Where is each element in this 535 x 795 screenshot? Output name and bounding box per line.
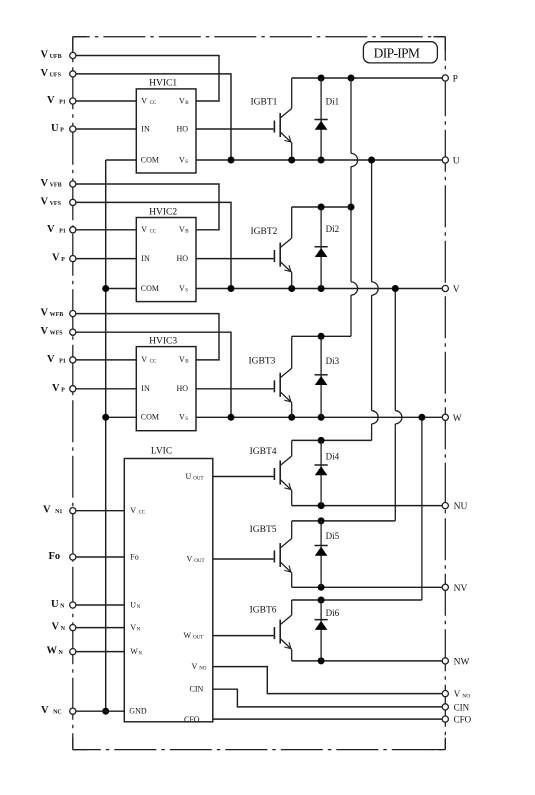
input pin label VP1 xyxy=(47,354,66,365)
junction V rail / IGBT emitter xyxy=(288,285,295,292)
wire V_N1 pin to LVIC Vcc xyxy=(73,510,125,512)
IGBT2 label xyxy=(251,227,278,237)
svg-text:IN: IN xyxy=(141,384,150,393)
svg-text:NW: NW xyxy=(454,657,470,667)
transistor IGBT3 symbol xyxy=(274,336,291,417)
terminal pin NV (open circle) xyxy=(442,584,448,590)
wire V_FB pin to HVIC3 VB (bootstrap supply) xyxy=(73,314,219,360)
IGBT5 label xyxy=(250,525,277,535)
wire NU rail (IGBT4 emitter to NU pin) xyxy=(292,505,446,507)
input pin label Fo xyxy=(49,551,61,562)
terminal pin UP (open circle) xyxy=(70,126,76,132)
transistor IGBT4 symbol xyxy=(274,440,291,505)
output pin label W xyxy=(453,414,462,424)
Di4 label xyxy=(326,451,340,461)
terminal pin W (open circle) xyxy=(442,414,448,420)
terminal pin CFO (open circle) xyxy=(442,716,448,722)
input pin label VP xyxy=(52,383,65,394)
LVIC title label xyxy=(151,447,172,457)
junction P rail / Di1 cathode xyxy=(318,75,325,82)
wire LVIC Vout to IGBT5 gate xyxy=(213,558,274,560)
Di1 label xyxy=(326,96,340,106)
HVIC1 pin label HO xyxy=(177,124,189,133)
LVIC pin label Vout xyxy=(187,554,205,564)
input pin label VP1 xyxy=(47,95,66,106)
svg-text:Di6: Di6 xyxy=(326,608,340,618)
svg-text:IGBT6: IGBT6 xyxy=(250,606,277,616)
LVIC pin label Fo xyxy=(130,552,138,561)
module boundary bottom border (dash-dot) xyxy=(73,749,446,751)
junction U rail / IGBT4 collector feed xyxy=(368,157,375,164)
transistor IGBT6 symbol xyxy=(274,600,291,661)
input pin label VUFB xyxy=(41,50,62,61)
HVIC3 pin label Vcc xyxy=(141,355,157,365)
input pin label VVFB xyxy=(41,178,62,189)
svg-text:Di1: Di1 xyxy=(326,96,340,106)
wire input pin to HVIC1 IN xyxy=(73,128,137,130)
svg-text:P: P xyxy=(453,75,458,85)
output pin label CFO xyxy=(454,715,472,725)
svg-text:Di2: Di2 xyxy=(326,224,340,234)
IC block HVIC2 box xyxy=(136,218,196,302)
svg-text:HVIC1: HVIC1 xyxy=(149,79,177,89)
terminal pin VP (open circle) xyxy=(70,386,76,392)
junction W rail / IGBT6 collector feed xyxy=(418,414,425,421)
HVIC2 title label xyxy=(149,207,177,217)
LVIC pin label WN xyxy=(130,647,142,657)
diode Di3 (freewheel) xyxy=(315,336,328,417)
junction V rail / IGBT5 collector feed xyxy=(392,285,399,292)
diode Di1 (freewheel) xyxy=(315,78,328,160)
IGBT6 label xyxy=(250,606,277,616)
junction U rail / diode anode xyxy=(318,157,325,164)
junction IGBT6 collector / Di6 cathode xyxy=(318,597,325,604)
LVIC pin label Vno xyxy=(192,662,207,672)
svg-text:LVIC: LVIC xyxy=(151,447,172,457)
junction V rail / V_FS wire xyxy=(228,285,235,292)
wire HVIC1 HO to IGBT1 gate xyxy=(196,128,274,130)
Di2 label xyxy=(326,224,340,234)
svg-text:IGBT4: IGBT4 xyxy=(250,447,277,457)
terminal pin VNO (open circle) xyxy=(442,691,448,697)
wire Fo pin to LVIC Fo xyxy=(73,556,125,558)
input pin label UP xyxy=(51,123,64,134)
wire HVIC1 COM to common bus xyxy=(106,159,137,161)
junction high-side bus / IGBT2 collector xyxy=(348,204,355,211)
input pin label VVFS xyxy=(41,196,62,207)
wire HVIC2 HO to IGBT2 gate xyxy=(196,258,274,260)
svg-text:IGBT1: IGBT1 xyxy=(251,98,278,108)
wire IGBT6 collector to W feed xyxy=(292,599,422,601)
wire V_P1 pin to HVIC1 Vcc xyxy=(73,100,137,102)
HVIC2 pin label HO xyxy=(177,254,189,263)
terminal pin NW (open circle) xyxy=(442,658,448,664)
wire HVIC3 COM to common bus xyxy=(106,416,137,418)
HVIC1 title label xyxy=(149,79,177,89)
junction NV rail / Di5 anode xyxy=(318,584,325,591)
Di5 label xyxy=(326,531,340,541)
svg-text:Di4: Di4 xyxy=(326,451,340,461)
input pin label VNC xyxy=(41,705,62,716)
wire input pin to HVIC2 IN xyxy=(73,258,137,260)
wire LVIC Vno to V_NO pin xyxy=(213,667,445,694)
wire IGBT4 collector to U feed xyxy=(292,439,372,441)
wire V_N pin to LVIC VN xyxy=(73,627,125,629)
HVIC1 pin label VB xyxy=(179,96,189,106)
IGBT4 label xyxy=(250,447,277,457)
input pin label WN xyxy=(47,646,64,657)
wire U phase rail xyxy=(196,159,445,161)
transistor IGBT2 symbol xyxy=(274,207,291,289)
terminal pin VUFS (open circle) xyxy=(70,71,76,77)
wire V_FS pin down to phase rail xyxy=(73,74,231,160)
wire V phase rail xyxy=(196,288,445,290)
IC block HVIC1 box xyxy=(136,89,196,173)
wire V_NC pin to LVIC GND xyxy=(73,710,125,712)
terminal pin VN1 (open circle) xyxy=(70,508,76,514)
terminal pin VVFB (open circle) xyxy=(70,181,76,187)
svg-text:Fo: Fo xyxy=(49,551,61,562)
input pin label VWFB xyxy=(41,308,64,319)
svg-text:HVIC3: HVIC3 xyxy=(149,336,177,346)
transistor IGBT5 symbol xyxy=(274,521,291,587)
LVIC pin label CIN xyxy=(190,685,204,694)
Di6 label xyxy=(326,608,340,618)
wire IGBT2 collector to high-side bus xyxy=(292,206,351,208)
wire V_FS pin down to phase rail xyxy=(73,332,231,417)
Di3 label xyxy=(326,356,340,366)
junction IGBT2 collector / Di2 cathode xyxy=(318,204,325,211)
terminal pin VVFS (open circle) xyxy=(70,199,76,205)
terminal pin VNC (open circle) xyxy=(70,708,76,714)
diode Di4 (freewheel) xyxy=(315,440,328,505)
svg-text:CIN: CIN xyxy=(190,685,204,694)
svg-text:Di3: Di3 xyxy=(326,356,340,366)
LVIC pin label VN xyxy=(130,623,140,633)
LVIC pin label UN xyxy=(130,600,140,610)
wire LVIC Wout to IGBT6 gate xyxy=(213,635,274,637)
svg-text:IGBT2: IGBT2 xyxy=(251,227,278,237)
junction COM bus at HVIC2 COM xyxy=(102,285,109,292)
wire V_FB pin to HVIC1 VB (bootstrap supply) xyxy=(73,56,219,102)
terminal pin VUFB (open circle) xyxy=(70,52,76,58)
HVIC2 pin label VS xyxy=(179,284,188,294)
diode Di2 (freewheel) xyxy=(315,207,328,289)
HVIC1 pin label IN xyxy=(141,124,150,133)
HVIC1 pin label COM xyxy=(141,155,159,164)
module boundary left border (dash-dot) xyxy=(72,37,74,750)
svg-text:CFO: CFO xyxy=(184,715,200,724)
wire W rail to IGBT6 collector (crosses NU and NV rails) xyxy=(421,417,423,600)
HVIC1 pin label Vcc xyxy=(141,96,157,106)
wire U_N pin to LVIC UN xyxy=(73,604,125,606)
HVIC3 pin label COM xyxy=(141,413,159,422)
svg-text:DIP-IPM: DIP-IPM xyxy=(374,46,420,61)
LVIC block box xyxy=(124,459,213,722)
terminal pin V (open circle) xyxy=(442,285,448,291)
diode Di6 (freewheel) xyxy=(315,600,328,661)
junction W rail / IGBT emitter xyxy=(288,414,295,421)
wire V rail to IGBT5 collector (hops over W rail, crosses NU rail) xyxy=(395,289,402,521)
wire V_P1 pin to HVIC3 Vcc xyxy=(73,359,137,361)
wire high-side bus from P rail to IGBT3 collector (hops over U and V rails) xyxy=(351,78,358,336)
terminal pin VWFB (open circle) xyxy=(70,311,76,317)
svg-text:HO: HO xyxy=(177,384,189,393)
svg-text:V: V xyxy=(453,285,460,295)
IGBT3 label xyxy=(249,356,276,366)
wire V_P1 pin to HVIC2 Vcc xyxy=(73,229,137,231)
junction IGBT3 collector / Di3 cathode xyxy=(318,333,325,340)
output pin label NW xyxy=(454,657,470,667)
terminal pin UN (open circle) xyxy=(70,602,76,608)
svg-text:COM: COM xyxy=(141,155,159,164)
junction U rail / IGBT emitter xyxy=(288,157,295,164)
wire COM vertical bus (HVIC COM / LVIC GND common) xyxy=(105,160,107,711)
terminal pin VP1 (open circle) xyxy=(70,227,76,233)
input pin label VP xyxy=(52,253,65,264)
LVIC pin label Uout xyxy=(186,472,204,482)
svg-text:CIN: CIN xyxy=(454,702,470,712)
output pin label NU xyxy=(454,502,468,512)
junction W rail / diode anode xyxy=(318,414,325,421)
junction IGBT4 collector / Di4 cathode xyxy=(318,437,325,444)
terminal pin P (open circle) xyxy=(442,75,448,81)
terminal pin VN (open circle) xyxy=(70,625,76,631)
output pin label U xyxy=(453,157,460,167)
svg-text:HO: HO xyxy=(177,124,189,133)
LVIC pin label CFO xyxy=(184,715,200,724)
output pin label CIN xyxy=(454,702,470,712)
junction U rail / V_FS wire xyxy=(228,157,235,164)
junction NW rail / Di6 anode xyxy=(318,657,325,664)
svg-text:Fo: Fo xyxy=(130,552,138,561)
module boundary right border (dash-dot) xyxy=(444,37,446,750)
svg-text:IGBT5: IGBT5 xyxy=(250,525,277,535)
HVIC3 pin label IN xyxy=(141,384,150,393)
wire HVIC2 COM to common bus xyxy=(106,288,137,290)
IC block HVIC3 box xyxy=(136,347,196,431)
DIP-IPM title box xyxy=(363,42,437,63)
input pin label VWFS xyxy=(41,326,64,337)
LVIC pin label GND xyxy=(129,707,147,716)
HVIC1 pin label VS xyxy=(179,155,188,165)
HVIC2 pin label VB xyxy=(179,225,189,235)
wire V_FS pin down to phase rail xyxy=(73,202,231,288)
svg-text:IGBT3: IGBT3 xyxy=(249,356,276,366)
junction IGBT5 collector / Di5 cathode xyxy=(318,517,325,524)
HVIC3 pin label VS xyxy=(179,413,188,423)
input pin label VN1 xyxy=(43,505,62,516)
LVIC pin label Vcc xyxy=(130,506,146,516)
wire IGBT5 collector to V feed xyxy=(292,520,396,522)
wire LVIC CFO to CFO pin xyxy=(213,718,445,720)
output pin label VNO xyxy=(454,689,470,700)
module boundary top border (dash-dot) xyxy=(73,36,446,38)
terminal pin NU (open circle) xyxy=(442,503,448,509)
svg-text:IN: IN xyxy=(141,124,150,133)
terminal pin VP1 (open circle) xyxy=(70,98,76,104)
HVIC2 pin label COM xyxy=(141,284,159,293)
transistor IGBT1 symbol xyxy=(274,78,291,160)
wire W phase rail xyxy=(196,416,445,418)
wire HVIC3 HO to IGBT3 gate xyxy=(196,388,274,390)
svg-text:GND: GND xyxy=(129,707,147,716)
wire LVIC Uout to IGBT4 gate xyxy=(213,476,274,478)
HVIC3 pin label VB xyxy=(179,355,189,365)
output pin label P xyxy=(453,75,458,85)
wire NV rail (IGBT5 emitter to NV pin) xyxy=(292,586,446,588)
input pin label UN xyxy=(51,599,65,610)
junction V rail / diode anode xyxy=(318,285,325,292)
terminal pin U (open circle) xyxy=(442,157,448,163)
wire P rail xyxy=(292,77,446,79)
diode Di5 (freewheel) xyxy=(315,521,328,587)
junction W rail / V_FS wire xyxy=(228,414,235,421)
terminal pin VWFS (open circle) xyxy=(70,329,76,335)
svg-text:HO: HO xyxy=(177,254,189,263)
input pin label VP1 xyxy=(47,224,66,235)
LVIC pin label Wout xyxy=(184,631,204,641)
terminal pin VP1 (open circle) xyxy=(70,357,76,363)
junction NU rail / Di4 anode xyxy=(318,502,325,509)
output pin label V xyxy=(453,285,460,295)
svg-text:Di5: Di5 xyxy=(326,531,340,541)
terminal pin VP (open circle) xyxy=(70,256,76,262)
HVIC3 pin label HO xyxy=(177,384,189,393)
HVIC3 title label xyxy=(149,336,177,346)
terminal pin Fo (open circle) xyxy=(70,554,76,560)
svg-text:COM: COM xyxy=(141,413,159,422)
junction COM bus at GND wire xyxy=(102,708,109,715)
IGBT1 label xyxy=(251,98,278,108)
wire V_FB pin to HVIC2 VB (bootstrap supply) xyxy=(73,184,219,230)
junction P rail / high-side bus xyxy=(348,75,355,82)
wire LVIC CIN to CIN pin xyxy=(213,689,445,707)
input pin label VN xyxy=(52,622,66,633)
wire IGBT3 collector to high-side bus xyxy=(292,335,351,337)
wire U rail to IGBT4 collector (hops over V and W rails) xyxy=(372,160,379,440)
svg-text:NV: NV xyxy=(454,584,468,594)
junction COM bus at HVIC3 COM xyxy=(102,414,109,421)
svg-text:IN: IN xyxy=(141,254,150,263)
HVIC2 pin label IN xyxy=(141,254,150,263)
svg-text:W: W xyxy=(453,414,462,424)
terminal pin WN (open circle) xyxy=(70,649,76,655)
svg-text:CFO: CFO xyxy=(454,715,472,725)
border corner joints xyxy=(73,37,446,750)
output pin label NV xyxy=(454,584,468,594)
input pin label VUFS xyxy=(41,68,62,79)
svg-text:HVIC2: HVIC2 xyxy=(149,207,177,217)
wire NW rail (IGBT6 emitter to NW pin) xyxy=(292,660,446,662)
wire input pin to HVIC3 IN xyxy=(73,388,137,390)
svg-text:COM: COM xyxy=(141,284,159,293)
svg-text:U: U xyxy=(453,157,460,167)
HVIC2 pin label Vcc xyxy=(141,225,157,235)
terminal pin CIN (open circle) xyxy=(442,704,448,710)
svg-text:NU: NU xyxy=(454,502,468,512)
wire W_N pin to LVIC WN xyxy=(73,651,125,653)
